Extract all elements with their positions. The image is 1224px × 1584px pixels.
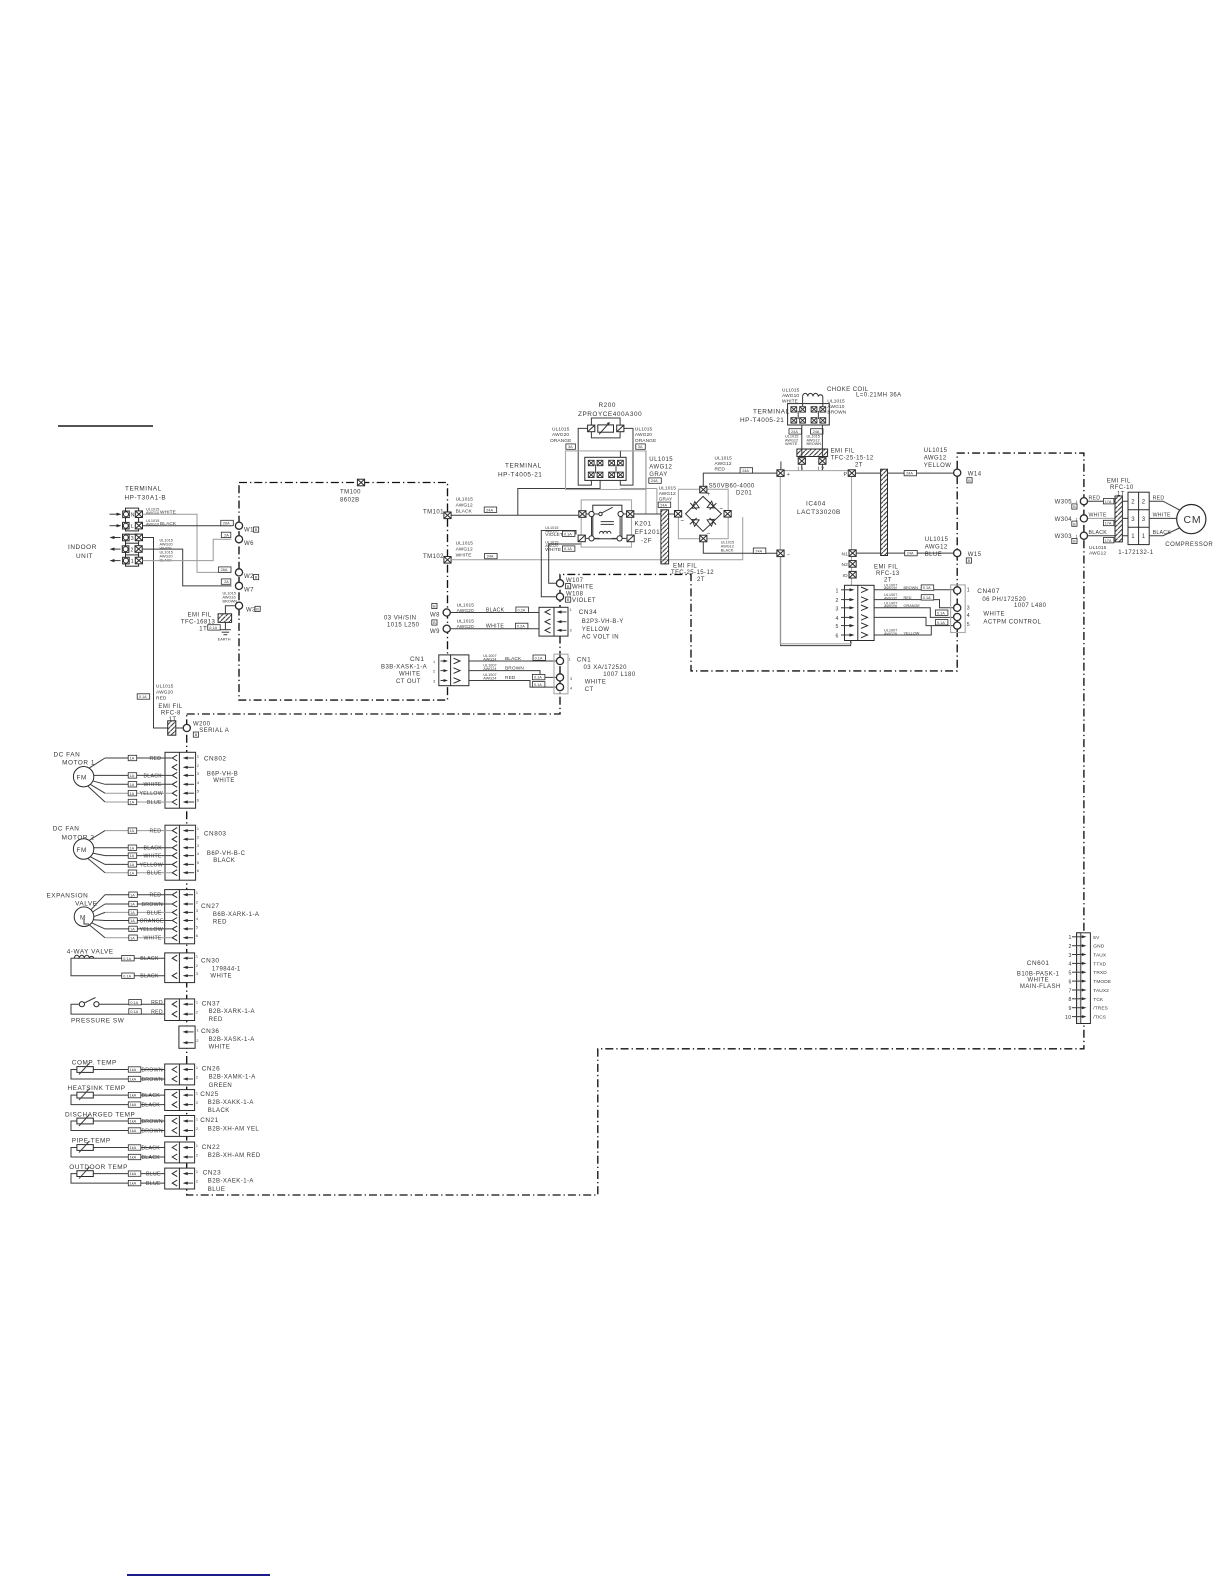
wire BLUE [105,870,172,877]
relay K201 outer box [581,500,631,547]
svg-text:IO: IO [843,573,848,579]
wires RFC-10 to compressor terminal [1122,501,1128,536]
svg-text:BLACK: BLACK [208,1108,230,1114]
svg-text:RED: RED [151,1000,163,1006]
connector CN23 body [165,1168,198,1189]
CN601 pin 5 TRXD [1069,970,1108,976]
connector CN27 body [165,890,198,944]
svg-text:CN407: CN407 [977,588,1000,595]
svg-text:3: 3 [570,628,572,632]
svg-text:BLUE: BLUE [925,552,942,558]
svg-text:UL1015: UL1015 [456,541,474,547]
IC404 output P node [844,470,856,478]
svg-text:0.2A: 0.2A [517,625,525,629]
svg-text:5: 5 [1069,971,1072,977]
svg-text:0.1A: 0.1A [130,1001,138,1005]
tags and labels 4-way valve wires [122,956,159,963]
EMI FIL RFC-10 filter body [1115,496,1122,542]
connector W2 [235,569,258,580]
svg-text:W7: W7 [244,588,254,594]
svg-text:N: N [131,513,135,519]
svg-text:B2B-XAEK-1-A: B2B-XAEK-1-A [208,1179,254,1185]
label UL1015 AWG10 BROWN at choke [827,398,846,415]
wire K201 coil to W107 white [549,544,582,583]
label UL1015 AWG20 BLACK on W8 wire [457,602,505,614]
tag 0.2A on W9 wire [515,623,528,628]
svg-text:W200: W200 [193,722,211,728]
svg-text:24A: 24A [755,549,762,553]
svg-text:UNIT: UNIT [76,553,93,560]
svg-text:B: B [1073,540,1076,544]
svg-text:TAUX2: TAUX2 [1093,988,1109,994]
svg-text:BROWN: BROWN [827,410,846,416]
svg-text:RED: RED [1153,496,1165,502]
svg-text:0.1A: 0.1A [937,611,945,615]
svg-text:8: 8 [1069,997,1072,1003]
CN601 pin 1 5V [1069,935,1101,941]
tag 24A on W14 wire [904,470,917,475]
svg-text:WHITE: WHITE [210,974,232,980]
connector CN803 labels [204,831,246,864]
svg-text:UL1015: UL1015 [649,457,673,463]
wire TM101 black to K201 with branch to terminal [451,480,600,515]
svg-text:2: 2 [196,1127,198,1131]
connector W6 [235,536,254,547]
connector CN34 body [539,607,572,636]
svg-text:B: B [968,559,971,563]
wire BLUE [105,910,172,917]
svg-text:RED: RED [156,695,167,701]
svg-text:UL1015: UL1015 [456,497,474,503]
wire D201 minus to IC404 [703,542,777,554]
svg-text:3: 3 [196,972,198,976]
svg-text:24A: 24A [906,472,913,476]
svg-text:1: 1 [196,1001,198,1005]
svg-text:AWG12: AWG12 [715,461,732,467]
svg-text:EMI FIL: EMI FIL [673,564,697,570]
compressor terminal 1-172132-1 [1118,492,1153,556]
svg-text:CM: CM [1184,514,1202,526]
svg-text:1: 1 [570,608,572,612]
svg-text:4: 4 [570,687,572,691]
svg-text:WHITE: WHITE [144,936,162,942]
svg-text:W2: W2 [244,574,254,580]
label UL1015 AWG20 ORANGE left + tag 3A [550,427,575,450]
ACTPM control connector body [836,585,875,640]
svg-text:RFC-10: RFC-10 [1110,485,1134,491]
terminal HP-T4005-21 upper label [740,409,790,425]
svg-text:BLACK: BLACK [1089,530,1108,536]
IC404 output N2 node [842,561,857,569]
labels RED WHITE BLACK at compressor [1153,496,1172,537]
wire N white to W2 [143,514,232,572]
svg-text:1kA: 1kA [130,1156,137,1160]
svg-text:3: 3 [196,909,198,913]
svg-text:1kA: 1kA [130,1068,137,1072]
wire terminal lower to choke feed top link [619,451,621,457]
svg-text:BLUE: BLUE [147,871,162,877]
svg-text:RED: RED [150,829,162,835]
svg-text:BROWN: BROWN [142,1128,163,1134]
wire TM102 white to D201 right node [451,517,743,560]
tag 26A on L wire [221,520,234,525]
connector W3 [235,602,260,613]
connector CN36 labels [201,1028,255,1051]
svg-text:AWG32: AWG32 [884,587,897,591]
svg-text:AC VOLT IN: AC VOLT IN [582,634,619,640]
svg-text:1015 L250: 1015 L250 [387,623,420,629]
wire RED [105,755,172,762]
svg-text:1kA: 1kA [130,1094,137,1098]
svg-text:B3B-XASK-1-A: B3B-XASK-1-A [381,665,427,671]
wire pin2 to W7 [143,549,232,586]
svg-text:B2P3-VH-B-Y: B2P3-VH-B-Y [582,619,624,625]
svg-text:0.1A: 0.1A [123,974,131,978]
tag 0.1A for RFC-8 [137,694,150,699]
connector W305 [1055,498,1088,510]
label UL1015 AWG20 WHITE [160,539,173,551]
connector CN25 labels [200,1091,254,1114]
svg-text:TERMINAL: TERMINAL [505,463,542,470]
svg-text:L1: L1 [798,467,804,473]
svg-text:UL1015: UL1015 [457,619,475,625]
svg-text:WHITE: WHITE [1028,978,1050,984]
label UL1015 AWG10 WHITE at choke [782,387,800,404]
svg-text:B: B [256,608,259,612]
terminal HP-T4005-21 lower label [498,463,542,479]
EMI FIL RFC-8 1T filter [158,704,182,735]
top rule line [58,425,153,427]
outdoor temp thermistor [69,1164,171,1183]
svg-text:6: 6 [836,634,839,640]
svg-text:RED: RED [209,1017,223,1023]
label UL1015 AWG12 YELLOW [924,448,952,469]
svg-text:8602B: 8602B [340,498,360,504]
svg-text:6: 6 [197,869,199,873]
DC fan motor 1 [54,751,95,787]
svg-text:BLACK: BLACK [142,1155,161,1161]
terminal pin 2 [122,546,142,554]
svg-text:2: 2 [196,1154,198,1158]
connector CN601 labels [1017,960,1061,990]
svg-text:CN30: CN30 [201,957,220,964]
svg-text:0.1A: 0.1A [534,676,542,680]
discharged temp thermistor [65,1111,172,1130]
svg-text:TMODE: TMODE [1093,979,1111,985]
connector CN1 board side body [433,655,469,686]
svg-text:W3: W3 [246,607,256,613]
svg-text:0.1A: 0.1A [564,532,572,536]
svg-text:1: 1 [196,955,198,959]
svg-text:1A: 1A [130,783,135,787]
svg-text:BLACK: BLACK [142,1145,161,1151]
svg-text:FM: FM [77,847,87,854]
wire W303 black to RFC-10 [1088,535,1115,537]
connector CN1 harness housing [554,654,568,694]
connector W8 [430,603,450,618]
terminal HP-T4005-21 lower body [585,457,626,480]
svg-text:EARTH: EARTH [218,637,231,641]
svg-text:3: 3 [836,606,839,612]
svg-text:2A: 2A [224,534,229,538]
connector W14 [954,469,982,483]
terminal pin N [123,511,143,519]
label UL1015 AWG12 under RFC-10 [1089,545,1107,557]
svg-text:UL1015: UL1015 [635,427,653,433]
svg-text:EMI FIL: EMI FIL [1107,478,1131,484]
arrow out of 2 [110,548,121,551]
label UL1015 AWG12 BROWN small [807,435,822,447]
svg-text:1A: 1A [130,871,135,875]
svg-text:RFC-13: RFC-13 [876,571,900,577]
label UL1015 AWG12 GRAY upper + tag 24A [649,457,673,483]
CN601 pin 9 /TRES [1069,1006,1108,1012]
svg-text:03 XA/172520: 03 XA/172520 [584,665,628,671]
svg-text:2: 2 [1131,500,1135,506]
svg-text:BLACK: BLACK [142,1103,161,1109]
svg-text:B6B-XARK-1-A: B6B-XARK-1-A [213,912,259,918]
connector CN407 circles [954,587,970,629]
connector CN1 harness side circles [556,657,572,690]
label UL1015 AWG20 RED [156,683,174,701]
expansion valve [47,893,98,927]
svg-text:3: 3 [1142,517,1146,523]
wire BLACK [105,845,172,852]
ground earth symbol [218,630,231,642]
svg-text:ORANGE: ORANGE [140,918,165,924]
svg-text:2: 2 [197,836,199,840]
tag 2A on W7 wire [221,579,231,584]
tag 0.2A on W8 wire [516,607,529,612]
svg-text:1A: 1A [130,829,135,833]
svg-text:AWG26: AWG26 [884,605,897,609]
wire WHITE [105,853,172,860]
svg-text:EXPANSION: EXPANSION [47,893,89,900]
svg-text:MOTOR 1: MOTOR 1 [62,760,95,767]
connector CN601 body [1077,933,1091,1024]
svg-text:BROWN: BROWN [142,902,163,908]
svg-text:BLUE: BLUE [146,1181,161,1187]
svg-text:WHITE: WHITE [545,547,561,553]
svg-text:BLUE: BLUE [147,800,162,806]
svg-text:1kA: 1kA [130,1078,137,1082]
svg-text:W1: W1 [244,528,254,534]
svg-text:UL1015: UL1015 [782,387,800,393]
CN601 pin 4 TTXD [1069,961,1107,967]
svg-text:1A: 1A [130,774,135,778]
label UL1015 AWG12 GRAY lower + tag 24A [658,486,676,508]
svg-text:L: L [131,524,134,530]
svg-text:17A: 17A [1105,539,1112,543]
label UL1015 AWG10 BLACK [146,519,177,527]
svg-text:1: 1 [836,588,839,594]
wires L1 L2 into IC404 [802,464,823,470]
svg-text:1kA: 1kA [130,1172,137,1176]
svg-text:AWG12: AWG12 [659,491,676,497]
svg-text:BROWN: BROWN [142,1119,163,1125]
svg-text:1A: 1A [130,903,135,907]
svg-text:24A: 24A [651,479,658,483]
svg-text:AWG12: AWG12 [456,547,473,553]
connector CN407 housing [951,585,966,633]
svg-text:2: 2 [196,1011,198,1015]
svg-text:CT OUT: CT OUT [396,679,421,685]
svg-text:RFC-8: RFC-8 [161,710,181,716]
label UL1015 AWG20 ORANGE right + tag 3A [635,427,656,450]
IC404 output N1 node [842,550,857,558]
connector W1 [235,522,258,533]
IC404 body [780,471,851,644]
terminal pin 3 [123,534,143,542]
svg-text:5: 5 [967,622,970,628]
svg-text:EMI FIL: EMI FIL [158,704,182,710]
svg-text:AWG12: AWG12 [925,544,948,550]
svg-text:2T: 2T [697,577,705,583]
svg-text:AWG32: AWG32 [884,596,897,600]
svg-text:4-WAY VALVE: 4-WAY VALVE [67,949,114,956]
connector W303 [1055,532,1088,544]
svg-text:ZPROYCE400A300: ZPROYCE400A300 [578,411,642,418]
svg-text:AWG10: AWG10 [146,522,159,526]
svg-text:0.1A: 0.1A [209,626,217,630]
svg-text:3: 3 [570,677,572,681]
wire BROWN [105,901,172,908]
tag 24A on W15 wire [905,550,918,555]
svg-text:BLACK: BLACK [505,656,522,662]
svg-text:BLUE: BLUE [146,1172,161,1178]
svg-text:D201: D201 [736,491,752,497]
arrow out of 3 [110,536,121,539]
wire R200 right leg [620,428,633,485]
svg-text:2: 2 [836,598,839,604]
svg-text:24A: 24A [486,508,493,512]
svg-text:WHITE: WHITE [1089,513,1107,519]
svg-text:RED: RED [150,756,162,762]
svg-text:VIOLET: VIOLET [545,532,563,538]
svg-text:HEATSINK TEMP: HEATSINK TEMP [68,1085,126,1092]
expansion valve leads [90,895,105,938]
arrow out of 1 [110,559,121,562]
IC404 output IO node [843,571,857,579]
svg-text:W305: W305 [1055,500,1073,506]
svg-text:BLACK: BLACK [456,509,473,515]
wire R200 left leg [578,428,591,485]
svg-text:L=0.21MH 36A: L=0.21MH 36A [856,392,902,398]
svg-text:B: B [567,585,570,589]
svg-text:TERMINAL: TERMINAL [125,486,162,493]
arrow into L [110,524,122,527]
wire pin1 to W6 [143,539,232,560]
svg-text:BLACK: BLACK [144,773,163,779]
wire N1 to W15 blue [856,552,953,554]
connector CN36 body [179,1026,199,1048]
svg-text:0.1A: 0.1A [923,596,931,600]
label UL1007 AWG24 BROWN [483,664,524,672]
svg-text:0.1A: 0.1A [937,621,945,625]
svg-text:24A: 24A [742,469,749,473]
svg-text:5: 5 [196,925,198,929]
svg-text:WHITE: WHITE [572,585,594,591]
svg-text:5V: 5V [1093,935,1100,941]
svg-text:2: 2 [196,901,198,905]
svg-text:TFC-25-15-12: TFC-25-15-12 [671,570,714,576]
svg-text:4: 4 [836,616,839,622]
wire K201 to EMI filter to D201 [634,513,675,515]
pipe temp thermistor [71,1138,172,1157]
svg-text:B10B-PASK-1: B10B-PASK-1 [1017,971,1060,977]
svg-text:17A: 17A [1105,500,1112,504]
svg-text:WHITE: WHITE [144,782,162,788]
wire RED [105,828,172,835]
tag 24A pair under terminal upper [789,429,823,434]
IC404 input plus node [777,470,790,478]
svg-text:AWG20: AWG20 [156,689,173,695]
svg-text:B: B [1073,505,1076,509]
svg-text:W15: W15 [968,552,982,558]
resistor R200 assembly [588,418,624,438]
svg-text:3A: 3A [568,445,573,449]
svg-text:FM: FM [77,775,87,782]
svg-text:ORANGE: ORANGE [550,438,571,444]
CN601 pin 7 TAUX2 [1069,988,1110,994]
connector CN407 labels [977,588,1046,626]
svg-text:2A: 2A [224,580,229,584]
svg-text:N2: N2 [842,562,849,568]
svg-text:R200: R200 [599,402,616,409]
svg-text:YELLOW: YELLOW [140,927,163,933]
svg-text:BLUE: BLUE [208,1187,225,1193]
svg-text:ACTPM CONTROL: ACTPM CONTROL [983,620,1041,626]
svg-text:TERMINAL: TERMINAL [753,409,790,416]
wire W304 white to RFC-10 [1088,517,1115,519]
svg-text:AWG10: AWG10 [146,511,159,515]
svg-text:AWG26: AWG26 [884,632,897,636]
resistor R200 labels [578,402,642,418]
label UL1007 AWG24 RED + tags 0.1A [483,673,545,687]
svg-text:26A: 26A [221,568,228,572]
fan motor 2 leads [88,831,105,873]
svg-text:1: 1 [196,1028,198,1032]
svg-text:AWG20: AWG20 [635,432,652,438]
wire L black to W1 [143,525,232,527]
connector CN23 labels [203,1170,254,1193]
CN601 pin 8 TCK [1069,997,1104,1003]
svg-text:1A: 1A [130,911,135,915]
svg-text:N1: N1 [842,551,849,557]
svg-text:2T: 2T [855,462,863,468]
svg-text:W8: W8 [430,613,440,619]
svg-text:1: 1 [196,1092,198,1096]
junction L1 [798,458,806,473]
connector CN1 board side labels [381,656,427,685]
svg-text:CN34: CN34 [579,609,598,616]
svg-text:RED: RED [505,675,516,681]
wire CN1 pin1 black [469,660,556,662]
svg-text:2: 2 [131,548,134,554]
svg-text:AWG20: AWG20 [457,608,474,614]
svg-text:24A: 24A [660,503,667,507]
terminal block HP-T30A1-B label [125,486,167,502]
arrow into N [110,513,122,516]
svg-text:6: 6 [196,934,198,938]
svg-text:2: 2 [1069,944,1072,950]
svg-text:EMI FIL: EMI FIL [831,449,855,455]
svg-text:BLACK: BLACK [721,548,734,552]
DC fan motor 2 [53,826,95,860]
svg-text:0.1A: 0.1A [534,683,542,687]
svg-text:B2B-XARK-1-A: B2B-XARK-1-A [209,1009,255,1015]
svg-text:3: 3 [433,680,435,684]
